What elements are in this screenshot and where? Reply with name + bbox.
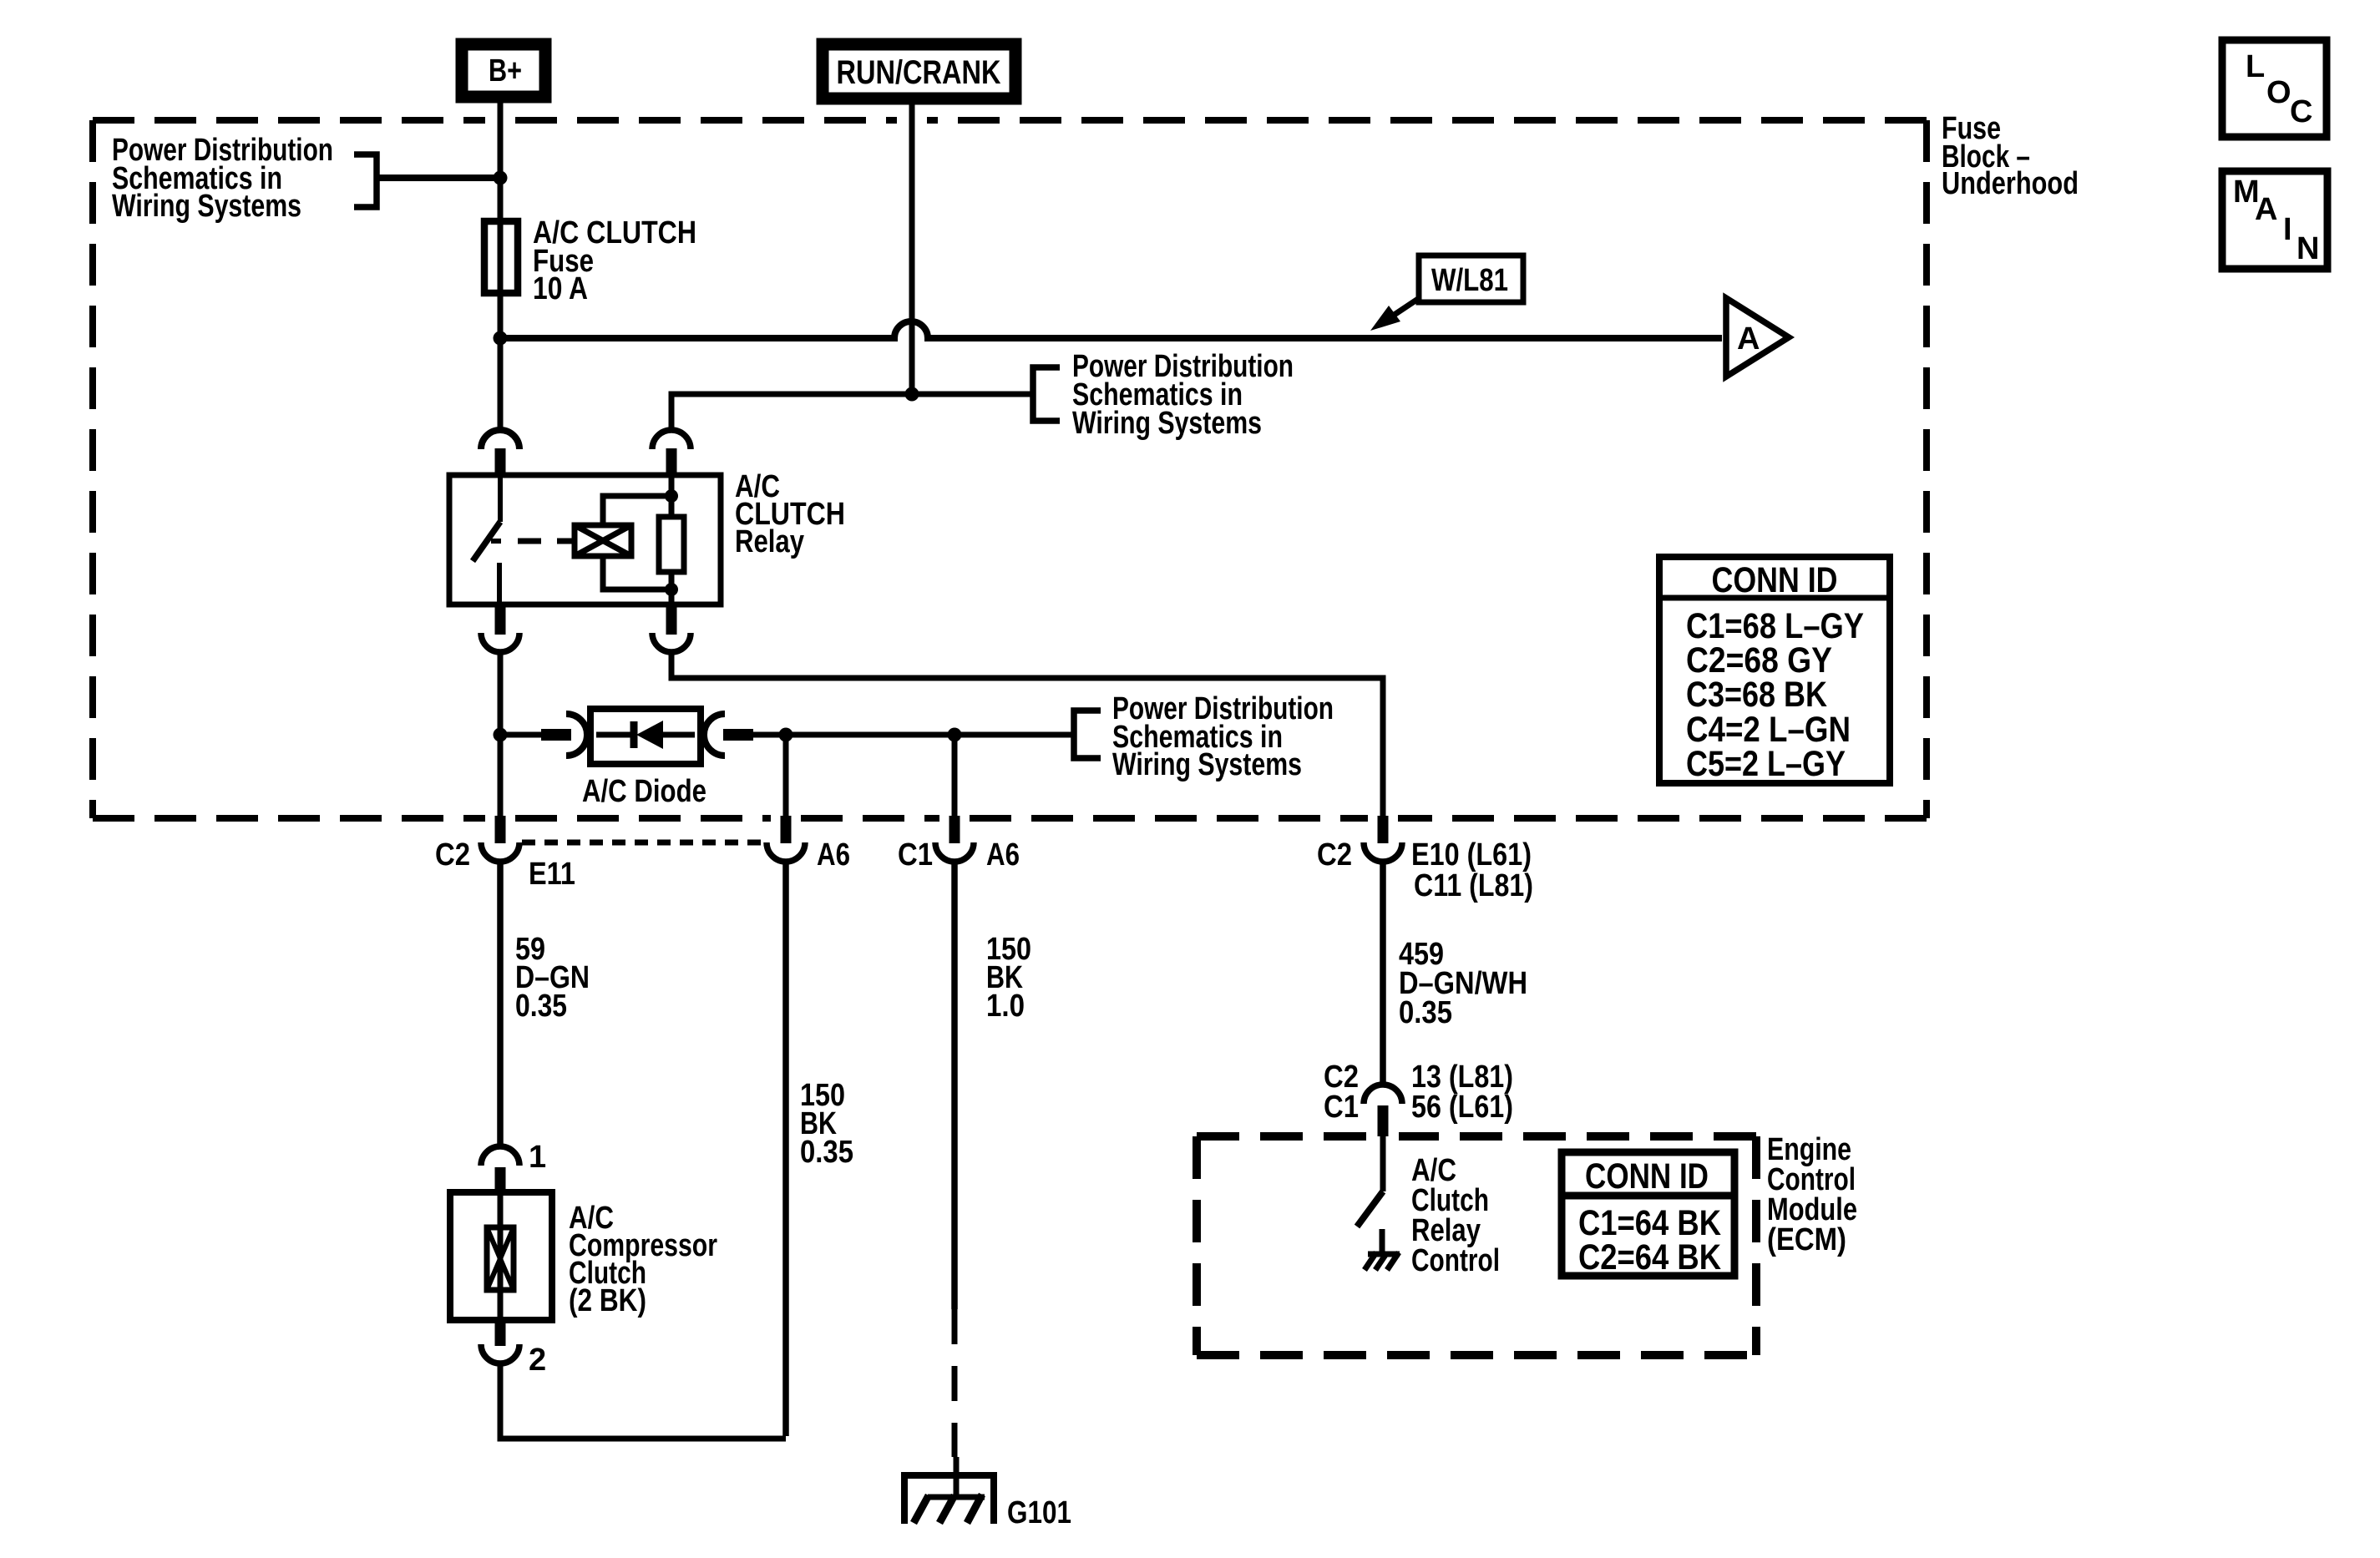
node junction fuse output [494, 331, 508, 346]
svg-text:Wiring Systems: Wiring Systems [1072, 406, 1262, 441]
label power distribution schematics (lower) [1112, 691, 1334, 782]
node relay coil top junction [665, 489, 678, 503]
diode A/C Diode box [590, 709, 701, 764]
wire relay output left down to C2 [498, 652, 504, 816]
node junction C1 branch [948, 728, 962, 742]
svg-text:CONN ID: CONN ID [1585, 1156, 1709, 1196]
wire diode right to bracket [750, 732, 1074, 738]
relay coil top link [603, 496, 671, 525]
svg-text:A: A [2255, 192, 2277, 227]
ECM internal ground [1365, 1252, 1400, 1270]
MAIN reference box [2222, 171, 2327, 269]
connector C2 at fuse block (to ECM) [1364, 816, 1402, 862]
node junction B+ / power distribution tap [494, 171, 508, 185]
label wire 150 BK 1.0 [986, 932, 1031, 1024]
svg-text:Wiring Systems: Wiring Systems [1112, 747, 1302, 782]
node junction RUN/CRANK tap [905, 387, 919, 402]
wire 59 D-GN down to compressor clutch [497, 862, 504, 1148]
connector A6 at fuse block [767, 816, 805, 862]
svg-text:Wiring Systems: Wiring Systems [112, 189, 301, 224]
svg-text:RUN/CRANK: RUN/CRANK [837, 54, 1001, 91]
svg-text:(2 BK): (2 BK) [569, 1283, 646, 1318]
svg-text:2: 2 [529, 1343, 546, 1378]
label Engine Control Module (ECM) [1767, 1132, 1857, 1257]
ECM driver switch A/C clutch relay control [1357, 1136, 1383, 1254]
svg-text:A6: A6 [817, 837, 850, 873]
wire 459 D-GN/WH down to ECM [1380, 862, 1386, 1086]
svg-text:C1: C1 [1324, 1090, 1359, 1125]
dotted connector housing line [522, 840, 764, 846]
connector relay pin top-right (86) [652, 430, 691, 475]
svg-text:C11 (L81): C11 (L81) [1414, 868, 1533, 903]
bracket power distribution (left) [354, 154, 377, 207]
svg-text:10 A: 10 A [533, 271, 588, 306]
wire to power distribution bracket [377, 175, 494, 181]
node junction diode left [494, 728, 508, 742]
svg-text:W/L81: W/L81 [1431, 263, 1508, 298]
svg-text:CONN ID: CONN ID [1712, 560, 1838, 600]
svg-text:A/C Diode: A/C Diode [582, 774, 706, 809]
connector relay pin bottom-right (85) [652, 604, 691, 652]
svg-text:C: C [2290, 94, 2312, 129]
bracket power distribution (lower) [1074, 711, 1101, 758]
svg-text:1: 1 [529, 1140, 546, 1175]
B+ power terminal box [462, 44, 545, 97]
svg-text:A6: A6 [986, 837, 1020, 873]
svg-text:E10 (L61): E10 (L61) [1411, 837, 1532, 873]
svg-text:E11: E11 [529, 857, 575, 892]
svg-text:C2=64 BK: C2=64 BK [1578, 1237, 1721, 1277]
CONN ID table fuse block [1659, 557, 1890, 784]
off-page connector A triangle [1726, 298, 1789, 377]
label wire 150 BK 0.35 [800, 1078, 853, 1170]
connector compressor clutch pin 2 [481, 1320, 519, 1363]
compressor clutch A/C box [450, 1192, 552, 1320]
LOC reference box [2222, 40, 2327, 137]
svg-text:C1: C1 [898, 837, 933, 873]
svg-text:C5=2 L–GY: C5=2 L–GY [1686, 744, 1846, 784]
svg-text:Underhood: Underhood [1942, 166, 2079, 201]
svg-text:A: A [1737, 321, 1760, 357]
svg-text:L: L [2246, 49, 2265, 84]
relay switch contact [473, 475, 501, 604]
label power distribution schematics (top left) [112, 133, 333, 224]
svg-text:O: O [2266, 75, 2291, 110]
svg-text:C3=68 BK: C3=68 BK [1686, 675, 1827, 715]
wire A6 branch down inside fuse block [783, 735, 789, 816]
label A/C CLUTCH Relay [735, 469, 845, 559]
W/L81 pointer arrow [1370, 299, 1418, 331]
label Fuse Block - Underhood [1942, 111, 2079, 201]
wire diode left lead [500, 732, 543, 738]
wire ground dashed drop [952, 1309, 958, 1457]
wire RUN/CRANK feed to relay coil [671, 394, 1033, 430]
svg-text:56 (L61): 56 (L61) [1411, 1090, 1513, 1125]
W/L81 tag box [1419, 255, 1523, 302]
wire C1 branch down inside fuse block [952, 735, 958, 816]
label A/C CLUTCH Fuse 10 A [533, 215, 696, 306]
wire horizontal feed to A with hop over RUN/CRANK wire [500, 321, 1722, 338]
connector C1/A6 at fuse block [935, 816, 974, 862]
inline connector diode right half [704, 714, 753, 756]
connector compressor clutch pin 1 [481, 1146, 519, 1192]
svg-text:Relay: Relay [735, 524, 804, 559]
inline connector diode left half [541, 714, 587, 756]
connector relay pin bottom-left (87) [481, 604, 519, 652]
relay internal resistor [659, 475, 684, 604]
label power distribution schematics (middle) [1072, 349, 1294, 441]
svg-text:G101: G101 [1007, 1495, 1071, 1530]
node relay coil bottom junction [665, 583, 678, 596]
bracket power distribution (middle) [1033, 367, 1060, 421]
relay A/C CLUTCH box [449, 475, 721, 604]
label A/C Compressor Clutch (2 BK) [569, 1201, 717, 1318]
wire B+ vertical [498, 102, 504, 428]
svg-text:N: N [2296, 231, 2319, 266]
svg-text:1.0: 1.0 [986, 989, 1025, 1024]
node junction A6 branch [779, 728, 793, 742]
svg-text:(ECM): (ECM) [1767, 1222, 1846, 1257]
svg-text:C2: C2 [435, 837, 470, 873]
svg-text:C2: C2 [1317, 837, 1352, 873]
ground G101 [904, 1457, 994, 1524]
connector C2/C1 at ECM [1364, 1085, 1402, 1136]
connector relay pin top-left (30) [481, 430, 519, 475]
label A/C Clutch Relay Control [1411, 1153, 1500, 1278]
ECM dashed box [1197, 1136, 1756, 1355]
RUN/CRANK power terminal box [823, 44, 1015, 99]
fuse A/C CLUTCH 10A [484, 221, 518, 293]
label wire 59 D-GN 0.35 [515, 932, 590, 1024]
CONN ID table ECM [1562, 1152, 1734, 1277]
wire relay coil output right down and across to ECM branch [671, 652, 1383, 816]
relay coil (box with X) [575, 525, 631, 556]
fuse block underhood dashed box [93, 120, 1927, 818]
svg-text:0.35: 0.35 [515, 989, 567, 1024]
wire RUN/CRANK vertical [909, 103, 915, 394]
label wire 459 D-GN/WH 0.35 [1399, 937, 1527, 1030]
wire 150 BK 1.0 down to ground [951, 862, 958, 1309]
svg-text:B+: B+ [489, 53, 522, 89]
relay coil bottom link [603, 556, 671, 589]
svg-text:0.35: 0.35 [800, 1135, 853, 1170]
relay actuator dashed link [518, 539, 573, 544]
wire compressor clutch return [500, 1363, 786, 1439]
wire A6 return down [782, 862, 789, 1436]
svg-text:Control: Control [1411, 1243, 1500, 1278]
connector C2 at fuse block (E11 pigtail) [481, 816, 519, 862]
svg-text:I: I [2283, 212, 2292, 247]
svg-text:0.35: 0.35 [1399, 995, 1452, 1030]
